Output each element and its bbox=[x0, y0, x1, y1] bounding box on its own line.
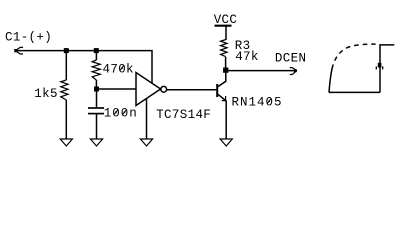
resistor 1k5 bbox=[65, 53, 67, 80]
junction: top rail / 470k bbox=[94, 48, 99, 53]
svg-text:470k: 470k bbox=[103, 62, 134, 76]
emitter lead with arrow bbox=[218, 94, 226, 139]
wire: node to inverter input bbox=[99, 88, 136, 90]
wire: top supply rail bbox=[15, 51, 152, 84]
resistor 470k bbox=[95, 53, 97, 60]
junction: 470k / 100n / inverter input bbox=[94, 87, 99, 92]
ground (under 100n) bbox=[90, 139, 102, 146]
waveform baseline bbox=[329, 91, 380, 93]
svg-text:RN1405: RN1405 bbox=[232, 96, 283, 110]
ground (under emitter) bbox=[220, 139, 232, 146]
wire: VCC to R3 bbox=[225, 27, 227, 41]
transistor Q1 RN1405 bbox=[216, 84, 218, 97]
wire: inverter output to transistor base bbox=[167, 89, 217, 91]
junction: R3 / collector / DCEN bbox=[223, 68, 228, 73]
waveform RC curve (dashed part) bbox=[333, 44, 375, 64]
inverter output bubble bbox=[161, 86, 167, 92]
capacitor 100n bbox=[96, 92, 98, 108]
wire: inverter ground pin bbox=[146, 98, 148, 139]
arrow up on step edge bbox=[378, 63, 382, 68]
svg-text:1k5: 1k5 bbox=[34, 87, 58, 101]
collector lead bbox=[218, 73, 226, 87]
wire: DCEN output bbox=[228, 70, 296, 72]
junction: top rail / 1k5 bbox=[64, 48, 69, 53]
resistor R3 bbox=[221, 40, 227, 57]
svg-text:TC7S14F: TC7S14F bbox=[156, 108, 211, 122]
VCC power bar bbox=[215, 25, 232, 27]
svg-text:DCEN: DCEN bbox=[275, 52, 306, 66]
ground (under inverter) bbox=[140, 139, 152, 146]
waveform rising RC edge (solid part) bbox=[329, 65, 333, 93]
op-amp U1: Schmitt inverter triangle bbox=[136, 73, 161, 106]
ground (under 1k5) bbox=[60, 139, 72, 146]
arrow to C1-(+) (left-pointing open arrow) bbox=[14, 47, 23, 54]
arrow DCEN (right-pointing open arrow) bbox=[290, 68, 297, 75]
svg-text:C1-(+): C1-(+) bbox=[5, 30, 52, 44]
svg-text:100n: 100n bbox=[104, 107, 138, 121]
svg-text:47k: 47k bbox=[235, 50, 259, 64]
waveform output step edge bbox=[380, 45, 394, 93]
